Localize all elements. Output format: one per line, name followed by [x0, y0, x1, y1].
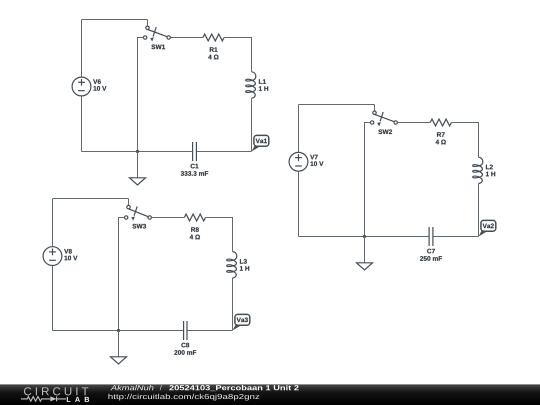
label V8 10 V	[64, 249, 72, 254]
logo LAB	[67, 397, 89, 402]
wire junction to ground	[137, 152, 139, 178]
wire inductor to bottom-right corner (Va2 node)	[478, 184, 480, 237]
footer line 1: author / title	[110, 385, 153, 390]
ground	[130, 178, 146, 185]
wire resistor to top-right corner, down to inductor	[224, 38, 251, 72]
capacitor C7	[429, 227, 433, 246]
switch SW1 (SPDT)	[143, 26, 170, 41]
logo CIRCUIT	[24, 387, 88, 395]
node Va2 flag	[479, 220, 496, 236]
voltage source V8 10 V	[43, 247, 62, 266]
junction dot (ground node)	[363, 235, 366, 238]
wire left throw to ground drop	[138, 38, 144, 152]
wire bottom rail right segment	[433, 236, 479, 238]
wire switch common lead	[147, 20, 149, 27]
wire junction to ground	[118, 331, 120, 357]
ground	[357, 263, 373, 270]
logo doodle wire	[21, 396, 66, 401]
label SW2	[378, 129, 392, 134]
label L2 1 H	[486, 165, 493, 170]
label L1 1 H	[259, 79, 266, 83]
wire left vertical top (V6 to top rail)	[81, 20, 83, 78]
footer line 2: url	[108, 394, 259, 401]
wire inductor to bottom-right corner (Va3 node)	[232, 278, 234, 331]
wire left vertical bottom (V6 to bottom rail)	[81, 96, 83, 152]
node Va1 flag	[252, 135, 269, 151]
inductor L1 1 H	[246, 72, 256, 98]
voltage source V7 10 V	[289, 152, 308, 171]
wire junction to ground	[364, 237, 366, 263]
wire left vertical bottom (V7 to bottom rail)	[298, 171, 300, 236]
node Va3 flag	[233, 314, 250, 330]
wire top rail	[299, 104, 375, 106]
junction dot (ground node)	[117, 329, 120, 332]
resistor R7 4 ohm	[430, 119, 451, 126]
label SW3	[132, 224, 146, 229]
switch SW2 (SPDT)	[370, 111, 397, 126]
capacitor C8	[184, 321, 187, 340]
wire right throw to resistor	[170, 37, 203, 39]
capacitor C1	[193, 142, 197, 161]
label C1 333.3 mF	[191, 164, 199, 169]
wire top rail	[53, 198, 129, 200]
label C7 250 mF	[427, 249, 435, 254]
wire right throw to resistor	[397, 122, 430, 124]
label SW1	[151, 45, 165, 50]
wire left throw to ground drop	[365, 123, 371, 237]
label R1 4 ohm	[210, 47, 218, 51]
wire left vertical bottom (V8 to bottom rail)	[52, 266, 54, 331]
ground	[111, 357, 127, 364]
wire left throw to ground drop	[119, 218, 125, 331]
switch SW3 (SPDT)	[124, 205, 151, 220]
wire resistor to top-right corner, down to inductor	[451, 123, 478, 158]
wire bottom rail right segment	[196, 151, 251, 153]
wire resistor to top-right corner, down to inductor	[206, 218, 233, 252]
wire left vertical top (V8 to top rail)	[52, 199, 54, 247]
wire switch common lead	[374, 105, 376, 112]
junction dot (ground node)	[136, 150, 139, 153]
wire bottom rail left segment	[299, 236, 430, 238]
label R8 4 ohm	[191, 227, 199, 232]
label R7 4 ohm	[437, 132, 445, 136]
wire left vertical top (V7 to top rail)	[298, 105, 300, 153]
wire bottom rail left segment	[82, 151, 193, 153]
inductor L3 1 H	[227, 252, 237, 278]
resistor R1 4 ohm	[203, 34, 224, 41]
wire top rail	[82, 19, 148, 21]
wire inductor to bottom-right corner (Va1 node)	[251, 98, 253, 151]
voltage source V6 10 V	[72, 77, 91, 96]
label V7 10 V	[310, 155, 318, 159]
inductor L2 1 H	[473, 157, 483, 183]
wire switch common lead	[128, 199, 130, 206]
resistor R8 4 ohm	[184, 214, 205, 221]
label V6 10 V	[93, 79, 101, 84]
label L3 1 H	[240, 259, 247, 264]
wire bottom rail left segment	[53, 330, 184, 332]
label C8 200 mF	[181, 343, 189, 348]
wire bottom rail right segment	[187, 330, 233, 332]
logo diode	[50, 396, 56, 401]
wire right throw to resistor	[151, 217, 184, 219]
